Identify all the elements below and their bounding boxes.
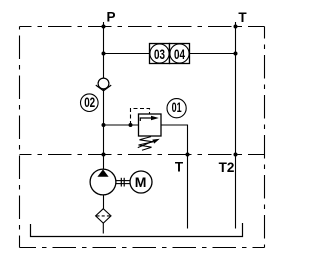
shaft coupling bbox=[116, 178, 130, 187]
motor M bbox=[130, 171, 152, 193]
enclosure border left (dash-dot) bbox=[19, 27, 21, 248]
wire: P riser bbox=[103, 22, 105, 170]
wire: T riser bbox=[235, 22, 237, 229]
suction filter bbox=[96, 209, 111, 223]
tank top separation line (dash-dot) bbox=[20, 154, 265, 156]
svg-text:T: T bbox=[175, 160, 184, 175]
check valve 02 bbox=[96, 78, 111, 91]
wire: pump suction upper bbox=[103, 195, 105, 209]
junction: T2 node at tank line bbox=[234, 153, 238, 157]
component 03 (gauge isolator) bbox=[150, 44, 170, 64]
svg-text:M: M bbox=[135, 174, 147, 190]
wire: pump suction lower bbox=[102, 223, 104, 234]
junction: T node at tank line bbox=[186, 153, 190, 157]
wire: gauge branch left bbox=[104, 53, 150, 55]
junction: P at border bbox=[102, 25, 106, 29]
junction: gauge branch at T riser bbox=[234, 52, 238, 56]
svg-text:04: 04 bbox=[174, 47, 185, 62]
svg-text:T2: T2 bbox=[219, 160, 235, 175]
component 04 (gauge isolator) bbox=[170, 44, 190, 64]
enclosure border top (dash-dot) bbox=[20, 26, 265, 28]
enclosure border bottom (dash-dot) bbox=[20, 247, 265, 249]
balloon label 02 bbox=[81, 94, 99, 112]
junction: relief branch on P riser bbox=[102, 123, 106, 127]
tank (open-top reservoir) bbox=[31, 223, 243, 237]
relief valve 01 body bbox=[139, 114, 162, 136]
junction: pilot tap bbox=[129, 123, 133, 127]
junction: P riser at tank line bbox=[102, 153, 106, 157]
svg-text:02: 02 bbox=[84, 95, 95, 110]
junction: T at border bbox=[234, 25, 238, 29]
svg-text:03: 03 bbox=[154, 47, 165, 62]
balloon label 01 bbox=[167, 99, 186, 118]
enclosure border right (dash-dot) bbox=[264, 27, 266, 248]
wire: relief branch bbox=[104, 124, 139, 126]
junction: gauge branch on P riser bbox=[102, 52, 106, 56]
wire: relief outlet to tank bbox=[161, 125, 188, 229]
relief valve 01 spring (adjustable) bbox=[138, 137, 160, 151]
svg-text:01: 01 bbox=[172, 100, 182, 115]
pump P1 bbox=[90, 169, 116, 195]
svg-text:T: T bbox=[238, 10, 247, 25]
wire: gauge branch right bbox=[190, 53, 236, 55]
svg-text:P: P bbox=[106, 10, 115, 25]
pilot line (dashed) bbox=[131, 109, 150, 126]
